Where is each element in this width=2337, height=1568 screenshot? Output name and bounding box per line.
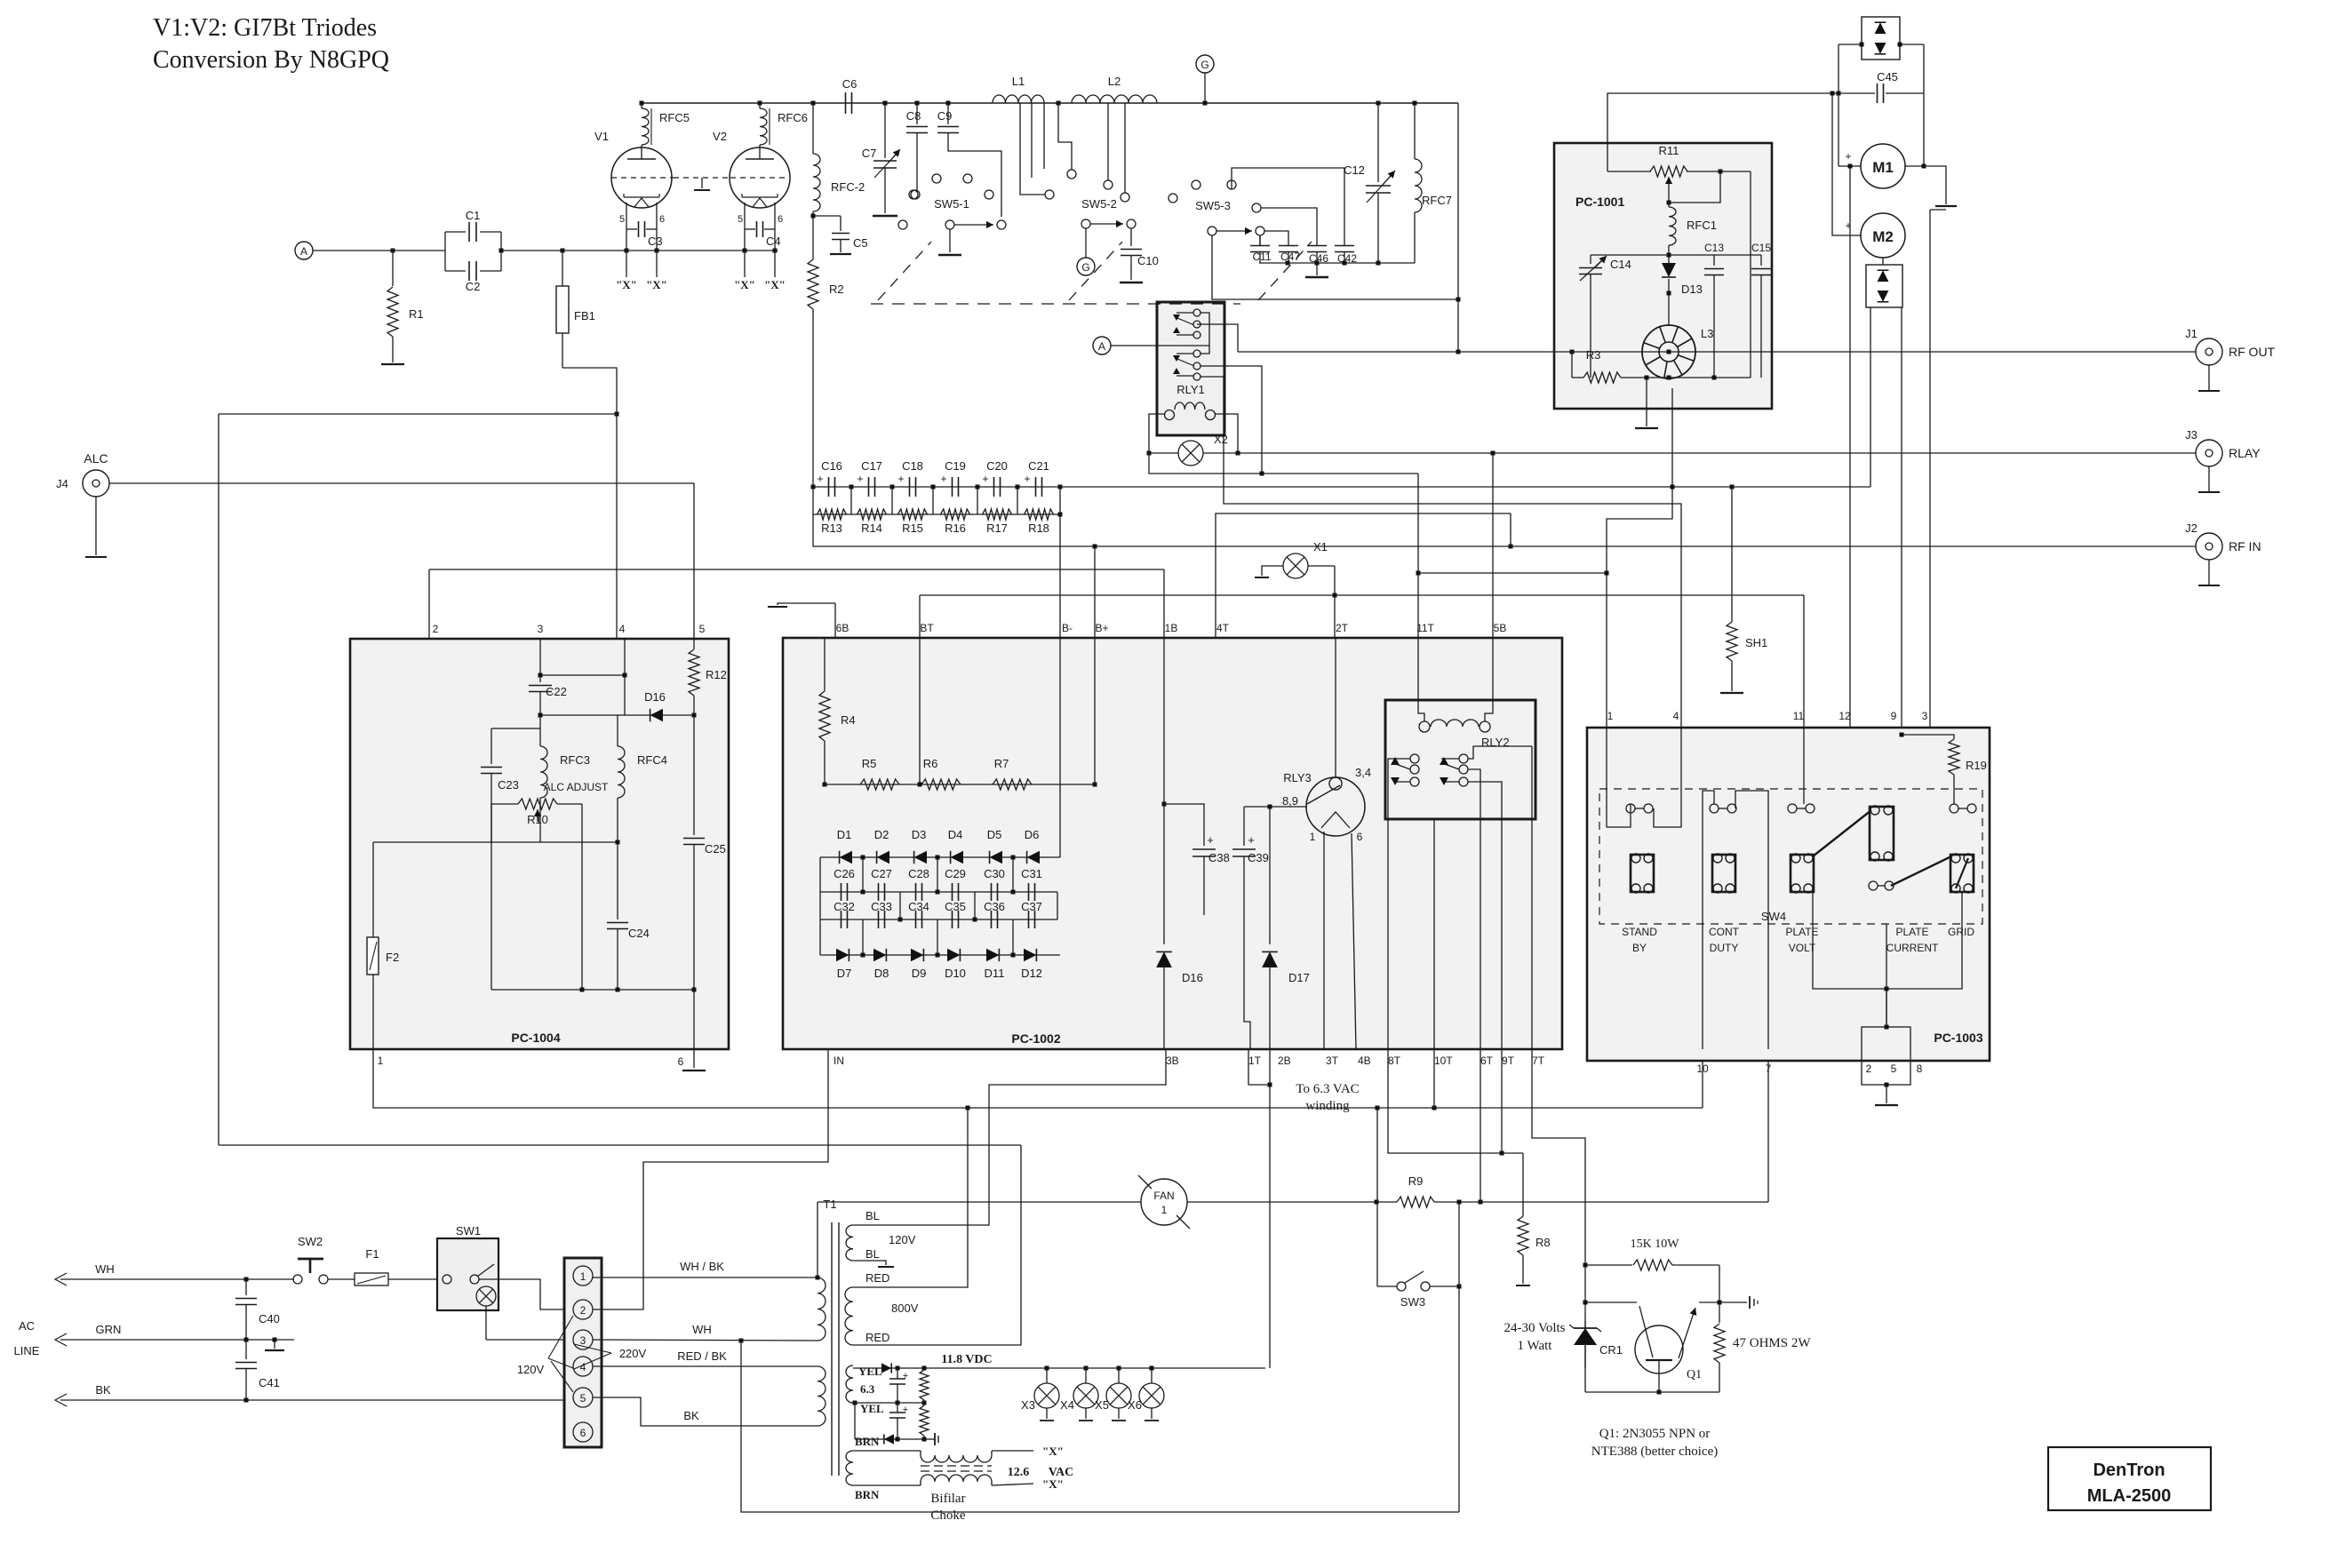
svg-text:C32: C32: [834, 900, 855, 913]
svg-text:"X": "X": [616, 278, 637, 291]
svg-text:PC-1004: PC-1004: [511, 1031, 560, 1045]
wire 11T riser: [1417, 474, 1419, 638]
svg-text:+: +: [1248, 833, 1255, 847]
capacitor C16: [828, 477, 830, 497]
svg-text:C8: C8: [906, 109, 921, 123]
svg-text:R1: R1: [409, 307, 424, 321]
diode D5: [990, 851, 1002, 864]
resistor R11: [1607, 171, 1651, 172]
capacitor C34: [915, 911, 917, 928]
svg-text:1: 1: [1161, 1204, 1168, 1216]
svg-text:R14: R14: [861, 521, 882, 535]
svg-text:C35: C35: [945, 900, 966, 913]
svg-text:R16: R16: [945, 521, 966, 535]
diode D10: [947, 949, 960, 961]
svg-text:1 Watt: 1 Watt: [1518, 1339, 1553, 1353]
svg-text:X5: X5: [1095, 1398, 1109, 1412]
wire 6B riser: [834, 603, 836, 638]
diode D16 PC-1004: [650, 709, 663, 721]
svg-text:C16: C16: [821, 459, 842, 473]
lamp X1: [1262, 566, 1283, 576]
svg-text:C45: C45: [1877, 70, 1898, 84]
wire SW5-3 rotor common: [1212, 235, 1458, 299]
wire PC-1003 pin11 riser: [1803, 595, 1805, 728]
capacitor C35: [952, 911, 953, 928]
svg-text:6B: 6B: [836, 622, 849, 634]
transformer primary 2: [818, 1366, 826, 1426]
DenTron label box: [2048, 1447, 2211, 1510]
switch SW4 contacts row2 pair: [1869, 881, 1878, 890]
wire 4T riser: [1216, 513, 1511, 638]
svg-text:D5: D5: [987, 828, 1002, 841]
capacitor C15: [1760, 255, 1762, 266]
svg-text:D16: D16: [1182, 971, 1203, 984]
svg-text:T1: T1: [823, 1198, 836, 1211]
svg-text:R18: R18: [1028, 521, 1049, 535]
svg-text:M2: M2: [1872, 228, 1894, 245]
svg-text:L3: L3: [1701, 327, 1713, 340]
wire X2 to 11T: [1149, 453, 1418, 474]
svg-text:C26: C26: [834, 867, 855, 880]
svg-text:2B: 2B: [1278, 1055, 1291, 1067]
wire plate bus: [642, 102, 1458, 104]
wire L1 taps: [1020, 103, 1045, 195]
wire B- riser: [1059, 638, 1061, 857]
wire F2 row: [373, 841, 618, 843]
wire 11.8VDC rail: [853, 1367, 1265, 1369]
svg-text:D6: D6: [1025, 828, 1040, 841]
svg-text:6: 6: [778, 214, 783, 225]
wire Q1 junction: [1583, 1263, 1588, 1268]
svg-text:D11: D11: [985, 967, 1005, 980]
svg-text:SW2: SW2: [298, 1235, 323, 1248]
svg-text:WH / BK: WH / BK: [680, 1260, 724, 1273]
resistor R1: [392, 251, 394, 286]
svg-text:D8: D8: [874, 967, 889, 980]
svg-text:R17: R17: [986, 521, 1008, 535]
wire term1 WHBK to T1: [593, 1277, 818, 1278]
svg-text:WH: WH: [95, 1262, 115, 1276]
svg-text:C30: C30: [984, 867, 1005, 880]
svg-text:GRN: GRN: [96, 1323, 122, 1336]
capacitor C36: [991, 911, 993, 928]
lamp X3: [1046, 1368, 1048, 1383]
wire fan line: [818, 1201, 1141, 1203]
svg-text:C9: C9: [937, 109, 953, 123]
svg-text:+: +: [982, 473, 988, 485]
lamp X6: [1151, 1368, 1153, 1383]
switch SW4 block grid: [1950, 855, 1974, 892]
wire SW3 vertical: [1458, 1202, 1460, 1286]
wire to J3 RLAY: [1238, 452, 2196, 454]
resistor R3: [1572, 377, 1583, 378]
svg-text:B+: B+: [1095, 622, 1108, 634]
svg-text:1B: 1B: [1165, 622, 1178, 634]
svg-text:15K 10W: 15K 10W: [1631, 1238, 1680, 1251]
svg-text:"X": "X": [646, 278, 667, 291]
wire term4 REDBK to T1: [593, 1365, 818, 1367]
resistor R4: [824, 638, 826, 691]
svg-text:NTE388 (better choice): NTE388 (better choice): [1591, 1445, 1718, 1459]
resistor R19: [1902, 735, 1954, 739]
wire YEL mid rail: [853, 1401, 857, 1405]
wire riser: [891, 487, 893, 514]
svg-text:24-30 Volts: 24-30 Volts: [1503, 1321, 1565, 1335]
ferrite bead FB1: [562, 251, 563, 286]
wire C22 top rail: [540, 674, 625, 676]
svg-text:V1: V1: [594, 130, 609, 143]
svg-text:RED: RED: [865, 1331, 889, 1344]
svg-text:J1: J1: [2185, 327, 2197, 340]
wire AC GRN: [55, 1333, 67, 1346]
svg-text:R19: R19: [1966, 759, 1987, 772]
svg-text:YEL: YEL: [858, 1365, 882, 1378]
ground 6B: [778, 603, 835, 605]
svg-text:8T: 8T: [1388, 1055, 1401, 1067]
wire PC-1001 to pin1 staircase: [1418, 388, 1672, 573]
resistor 12V a: [920, 1370, 929, 1400]
svg-text:6: 6: [580, 1427, 586, 1439]
svg-text:C21: C21: [1028, 459, 1049, 473]
wire pin12 to M1: [1849, 166, 1851, 728]
resistor R16: [941, 509, 970, 520]
svg-text:8,9: 8,9: [1282, 794, 1298, 808]
wire AC WH: [55, 1273, 67, 1285]
svg-text:RED / BK: RED / BK: [677, 1349, 727, 1363]
wire SW1 to term2: [499, 1279, 564, 1309]
tube V1 pins: [626, 203, 627, 251]
switch SW1 box: [437, 1238, 499, 1310]
wire WH down to common: [741, 1341, 1459, 1512]
relay RLY2 contacts left: [1410, 754, 1419, 763]
wire D16a row: [540, 714, 694, 716]
svg-text:R7: R7: [994, 757, 1009, 770]
wire M2 rail: [1870, 307, 1871, 487]
wire Q1 base row: [1585, 1301, 1637, 1303]
diode D4: [951, 851, 963, 864]
svg-text:3: 3: [538, 623, 544, 635]
svg-text:11.8 VDC: 11.8 VDC: [941, 1353, 992, 1366]
capacitor C33: [878, 911, 880, 928]
diode D1: [840, 851, 852, 864]
relay RLY2 box: [1385, 700, 1535, 819]
wire cap row C26-C31: [820, 891, 1057, 893]
capacitor C45: [1838, 92, 1875, 94]
svg-text:+: +: [1024, 473, 1030, 485]
svg-text:C5: C5: [853, 236, 868, 250]
svg-text:120V: 120V: [889, 1233, 916, 1246]
diode D3: [914, 851, 927, 864]
svg-text:C10: C10: [1137, 254, 1159, 267]
svg-text:DUTY: DUTY: [1710, 942, 1739, 954]
toroid L3: [1642, 325, 1695, 378]
svg-text:1T: 1T: [1248, 1055, 1262, 1067]
capacitor C4: [745, 228, 755, 230]
svg-text:J4: J4: [56, 477, 68, 490]
capacitor C23: [491, 728, 492, 764]
wire 1T jog: [1248, 1049, 1270, 1085]
wire RFC2 to C5: [811, 214, 816, 219]
svg-text:120V: 120V: [517, 1363, 545, 1376]
wire input row PC-1004: [429, 569, 1164, 570]
bandswitch SW5-1: [932, 174, 941, 183]
capacitor C40: [245, 1279, 247, 1295]
voltage select jumpers: [548, 1316, 573, 1358]
capacitor C14 variable: [1590, 255, 1591, 264]
svg-text:+: +: [1207, 833, 1214, 847]
svg-text:12: 12: [1838, 710, 1851, 722]
capacitor C24: [607, 922, 628, 924]
relay RLY1 common link: [1200, 313, 1209, 354]
svg-text:X3: X3: [1021, 1398, 1035, 1412]
diode pair M2: [1866, 265, 1902, 307]
choke RFC1: [1669, 207, 1676, 245]
wire 5B riser: [1492, 453, 1494, 638]
svg-text:R12: R12: [706, 668, 727, 681]
svg-text:3,4: 3,4: [1355, 766, 1371, 779]
svg-text:6.3: 6.3: [860, 1382, 875, 1396]
wire grid bias rail: [219, 413, 617, 415]
svg-text:SW1: SW1: [456, 1224, 481, 1238]
resistor 15K: [1633, 1260, 1672, 1270]
wire PC-1004 bottom rail: [491, 989, 694, 991]
connector J4 ALC: [83, 470, 109, 497]
wire R2 to cap row: [812, 311, 814, 487]
wire Q1 bottom: [1585, 1391, 1719, 1393]
capacitor C27: [878, 883, 880, 901]
svg-text:47 OHMS 2W: 47 OHMS 2W: [1733, 1336, 1811, 1350]
svg-text:C3: C3: [648, 235, 663, 248]
resistor R13: [818, 509, 847, 520]
svg-text:11T: 11T: [1416, 622, 1434, 634]
svg-text:C24: C24: [628, 927, 650, 940]
wire RLY2 to bottom pins: [1388, 759, 1391, 1049]
capacitor C44: [889, 1412, 905, 1413]
choke RFC7: [1414, 103, 1416, 159]
svg-text:7T: 7T: [1532, 1055, 1545, 1067]
bandswitch SW5-3: [1168, 194, 1177, 203]
ground R1: [381, 363, 404, 365]
wire L2 taps: [1058, 103, 1072, 170]
resistor 47 ohms: [1714, 1324, 1725, 1363]
wire term3 WH to T1: [593, 1340, 818, 1341]
svg-text:R10: R10: [527, 813, 548, 826]
svg-text:C29: C29: [945, 867, 966, 880]
transformer secondary BL: [846, 1225, 853, 1261]
svg-text:2T: 2T: [1336, 622, 1349, 634]
capacitor C5: [840, 216, 841, 231]
capacitor C42: [1335, 245, 1354, 247]
svg-text:D9: D9: [912, 967, 927, 980]
svg-text:5: 5: [699, 623, 706, 635]
svg-text:C13: C13: [1704, 242, 1724, 254]
svg-text:V1:V2: GI7Bt Triodes: V1:V2: GI7Bt Triodes: [153, 14, 377, 42]
svg-text:8: 8: [1917, 1063, 1923, 1075]
svg-text:BRN: BRN: [855, 1488, 880, 1501]
svg-text:PLATE: PLATE: [1895, 926, 1928, 938]
resistor R18: [1025, 509, 1054, 520]
svg-text:1: 1: [378, 1055, 384, 1067]
svg-text:5: 5: [619, 214, 625, 225]
zener CR1: [1584, 1321, 1586, 1330]
wire 8T to R8: [1388, 1049, 1523, 1153]
svg-text:ALC ADJUST: ALC ADJUST: [544, 781, 609, 793]
svg-text:C14: C14: [1610, 258, 1631, 271]
svg-text:SW3: SW3: [1400, 1295, 1425, 1309]
svg-text:C4: C4: [766, 235, 781, 248]
inductor L2: [1072, 95, 1157, 103]
choke RFC6: [760, 108, 767, 145]
wire term5 BK to T1: [593, 1397, 818, 1426]
capacitor C2: [445, 270, 466, 272]
svg-text:3B: 3B: [1166, 1055, 1179, 1067]
wire 12V bottom rail: [855, 1438, 928, 1440]
svg-text:"X": "X": [1042, 1445, 1064, 1458]
wire FB1 down: [562, 368, 617, 639]
wire A to C1: [313, 250, 445, 251]
svg-text:4: 4: [1673, 710, 1679, 722]
wire matrix risers: [862, 857, 864, 892]
wire SW4 cont duty: [1703, 791, 1714, 1049]
svg-text:F2: F2: [386, 951, 399, 964]
svg-text:R2: R2: [829, 283, 844, 296]
svg-text:D3: D3: [912, 828, 927, 841]
svg-text:"X": "X": [764, 278, 786, 291]
transformer T1 core: [831, 1222, 833, 1476]
capacitor C8: [916, 103, 918, 124]
wire 10T drop: [1433, 1049, 1435, 1108]
svg-text:IN: IN: [834, 1055, 844, 1067]
ground 12V: [928, 1438, 935, 1440]
diode D13: [1662, 263, 1676, 277]
svg-text:+: +: [903, 1371, 908, 1381]
transformer primary 1: [818, 1277, 826, 1341]
svg-text:5: 5: [738, 214, 743, 225]
relay RLY1 coil: [1175, 402, 1205, 410]
svg-text:R3: R3: [1586, 348, 1601, 362]
svg-text:A: A: [300, 245, 307, 258]
svg-text:LINE: LINE: [14, 1344, 40, 1357]
wire to J1 RF OUT: [1197, 324, 1238, 352]
svg-text:BY: BY: [1632, 942, 1647, 954]
svg-text:BL: BL: [865, 1247, 880, 1261]
svg-text:4T: 4T: [1216, 622, 1230, 634]
svg-text:5: 5: [1891, 1063, 1897, 1075]
capacitor C20: [993, 477, 995, 497]
wire 1B D16 column: [1163, 569, 1165, 944]
svg-text:C33: C33: [871, 900, 892, 913]
lamp SW1: [476, 1286, 496, 1306]
svg-text:C28: C28: [908, 867, 929, 880]
diode pair D14 top: [1862, 17, 1900, 60]
svg-text:X6: X6: [1128, 1398, 1142, 1412]
wire RED bottom: [853, 1145, 1021, 1345]
svg-text:RLY1: RLY1: [1176, 383, 1205, 396]
capacitor C41: [245, 1340, 247, 1359]
tube V2 pins: [744, 203, 746, 251]
choke RFC-2: [812, 103, 814, 154]
svg-text:2: 2: [580, 1304, 586, 1317]
svg-text:V2: V2: [713, 130, 727, 143]
svg-text:BL: BL: [865, 1209, 880, 1222]
svg-text:C19: C19: [945, 459, 966, 473]
svg-text:D10: D10: [945, 967, 966, 980]
svg-text:RFC6: RFC6: [778, 111, 808, 124]
svg-text:D17: D17: [1288, 971, 1310, 984]
svg-text:R6: R6: [923, 757, 938, 770]
svg-text:1: 1: [1310, 831, 1316, 843]
svg-text:1: 1: [1607, 710, 1614, 722]
svg-text:10: 10: [1696, 1063, 1709, 1075]
tube V1: [611, 147, 672, 208]
svg-text:5B: 5B: [1494, 622, 1507, 634]
svg-text:RFC7: RFC7: [1422, 194, 1452, 207]
lamp X5: [1118, 1368, 1120, 1383]
svg-text:CURRENT: CURRENT: [1886, 942, 1939, 954]
wire plate volt block: [1803, 728, 1805, 804]
relay RLY3: [1306, 777, 1365, 836]
svg-text:C25: C25: [705, 842, 726, 856]
wire SW4 pin7 riser: [1735, 791, 1768, 1049]
svg-text:4B: 4B: [1358, 1055, 1371, 1067]
capacitor C19: [952, 477, 953, 497]
svg-text:9: 9: [1891, 710, 1897, 722]
wire SW5-3 rotor to caps: [1259, 235, 1261, 245]
tube V2: [730, 147, 790, 208]
svg-text:4: 4: [580, 1361, 586, 1373]
relay RLY2: [1431, 720, 1479, 727]
bandswitch SW5-2: [1045, 190, 1054, 199]
svg-text:C47: C47: [1280, 251, 1300, 263]
capacitor C10: [1130, 228, 1132, 246]
capacitor C11: [1250, 245, 1270, 247]
switch SW2: [293, 1275, 302, 1284]
wire row right to B-: [1059, 514, 1061, 638]
PC-1002 board: [783, 638, 1562, 1049]
ground L3: [1646, 378, 1647, 426]
wire riser: [850, 487, 852, 514]
resistor 12V b: [920, 1405, 929, 1436]
switch SW4 contacts row1: [1626, 804, 1635, 813]
transformer secondary 6.3V: [846, 1365, 853, 1403]
wire PC1001 right rail: [1750, 171, 1751, 378]
switch SW4 wipers: [1813, 810, 1871, 856]
svg-text:RFC4: RFC4: [637, 753, 667, 767]
svg-text:SW5-1: SW5-1: [934, 197, 969, 211]
svg-text:+: +: [940, 473, 946, 485]
svg-text:12.6: 12.6: [1008, 1466, 1030, 1479]
capacitor C17: [868, 477, 870, 497]
diode D17: [1269, 807, 1271, 944]
svg-text:RFC5: RFC5: [659, 111, 690, 124]
wire 9T drop: [1501, 1049, 1503, 1153]
svg-text:SH1: SH1: [1745, 636, 1767, 649]
wire RLY1 contact to meter line: [1200, 366, 1262, 474]
capacitor C30: [991, 883, 993, 901]
svg-text:2: 2: [1866, 1063, 1872, 1075]
svg-text:RLY2: RLY2: [1481, 736, 1510, 749]
diode D7: [836, 949, 849, 961]
resistor R6: [921, 779, 961, 790]
PC-1004 board: [350, 639, 729, 1049]
svg-text:B-: B-: [1062, 622, 1073, 634]
svg-text:R11: R11: [1659, 144, 1679, 157]
wire tank output vertical: [1457, 103, 1459, 352]
transistor Q1: [1635, 1325, 1683, 1373]
resistor R14: [857, 509, 887, 520]
choke RFC5: [642, 108, 649, 145]
wire pin1 to bus: [373, 1049, 1703, 1108]
